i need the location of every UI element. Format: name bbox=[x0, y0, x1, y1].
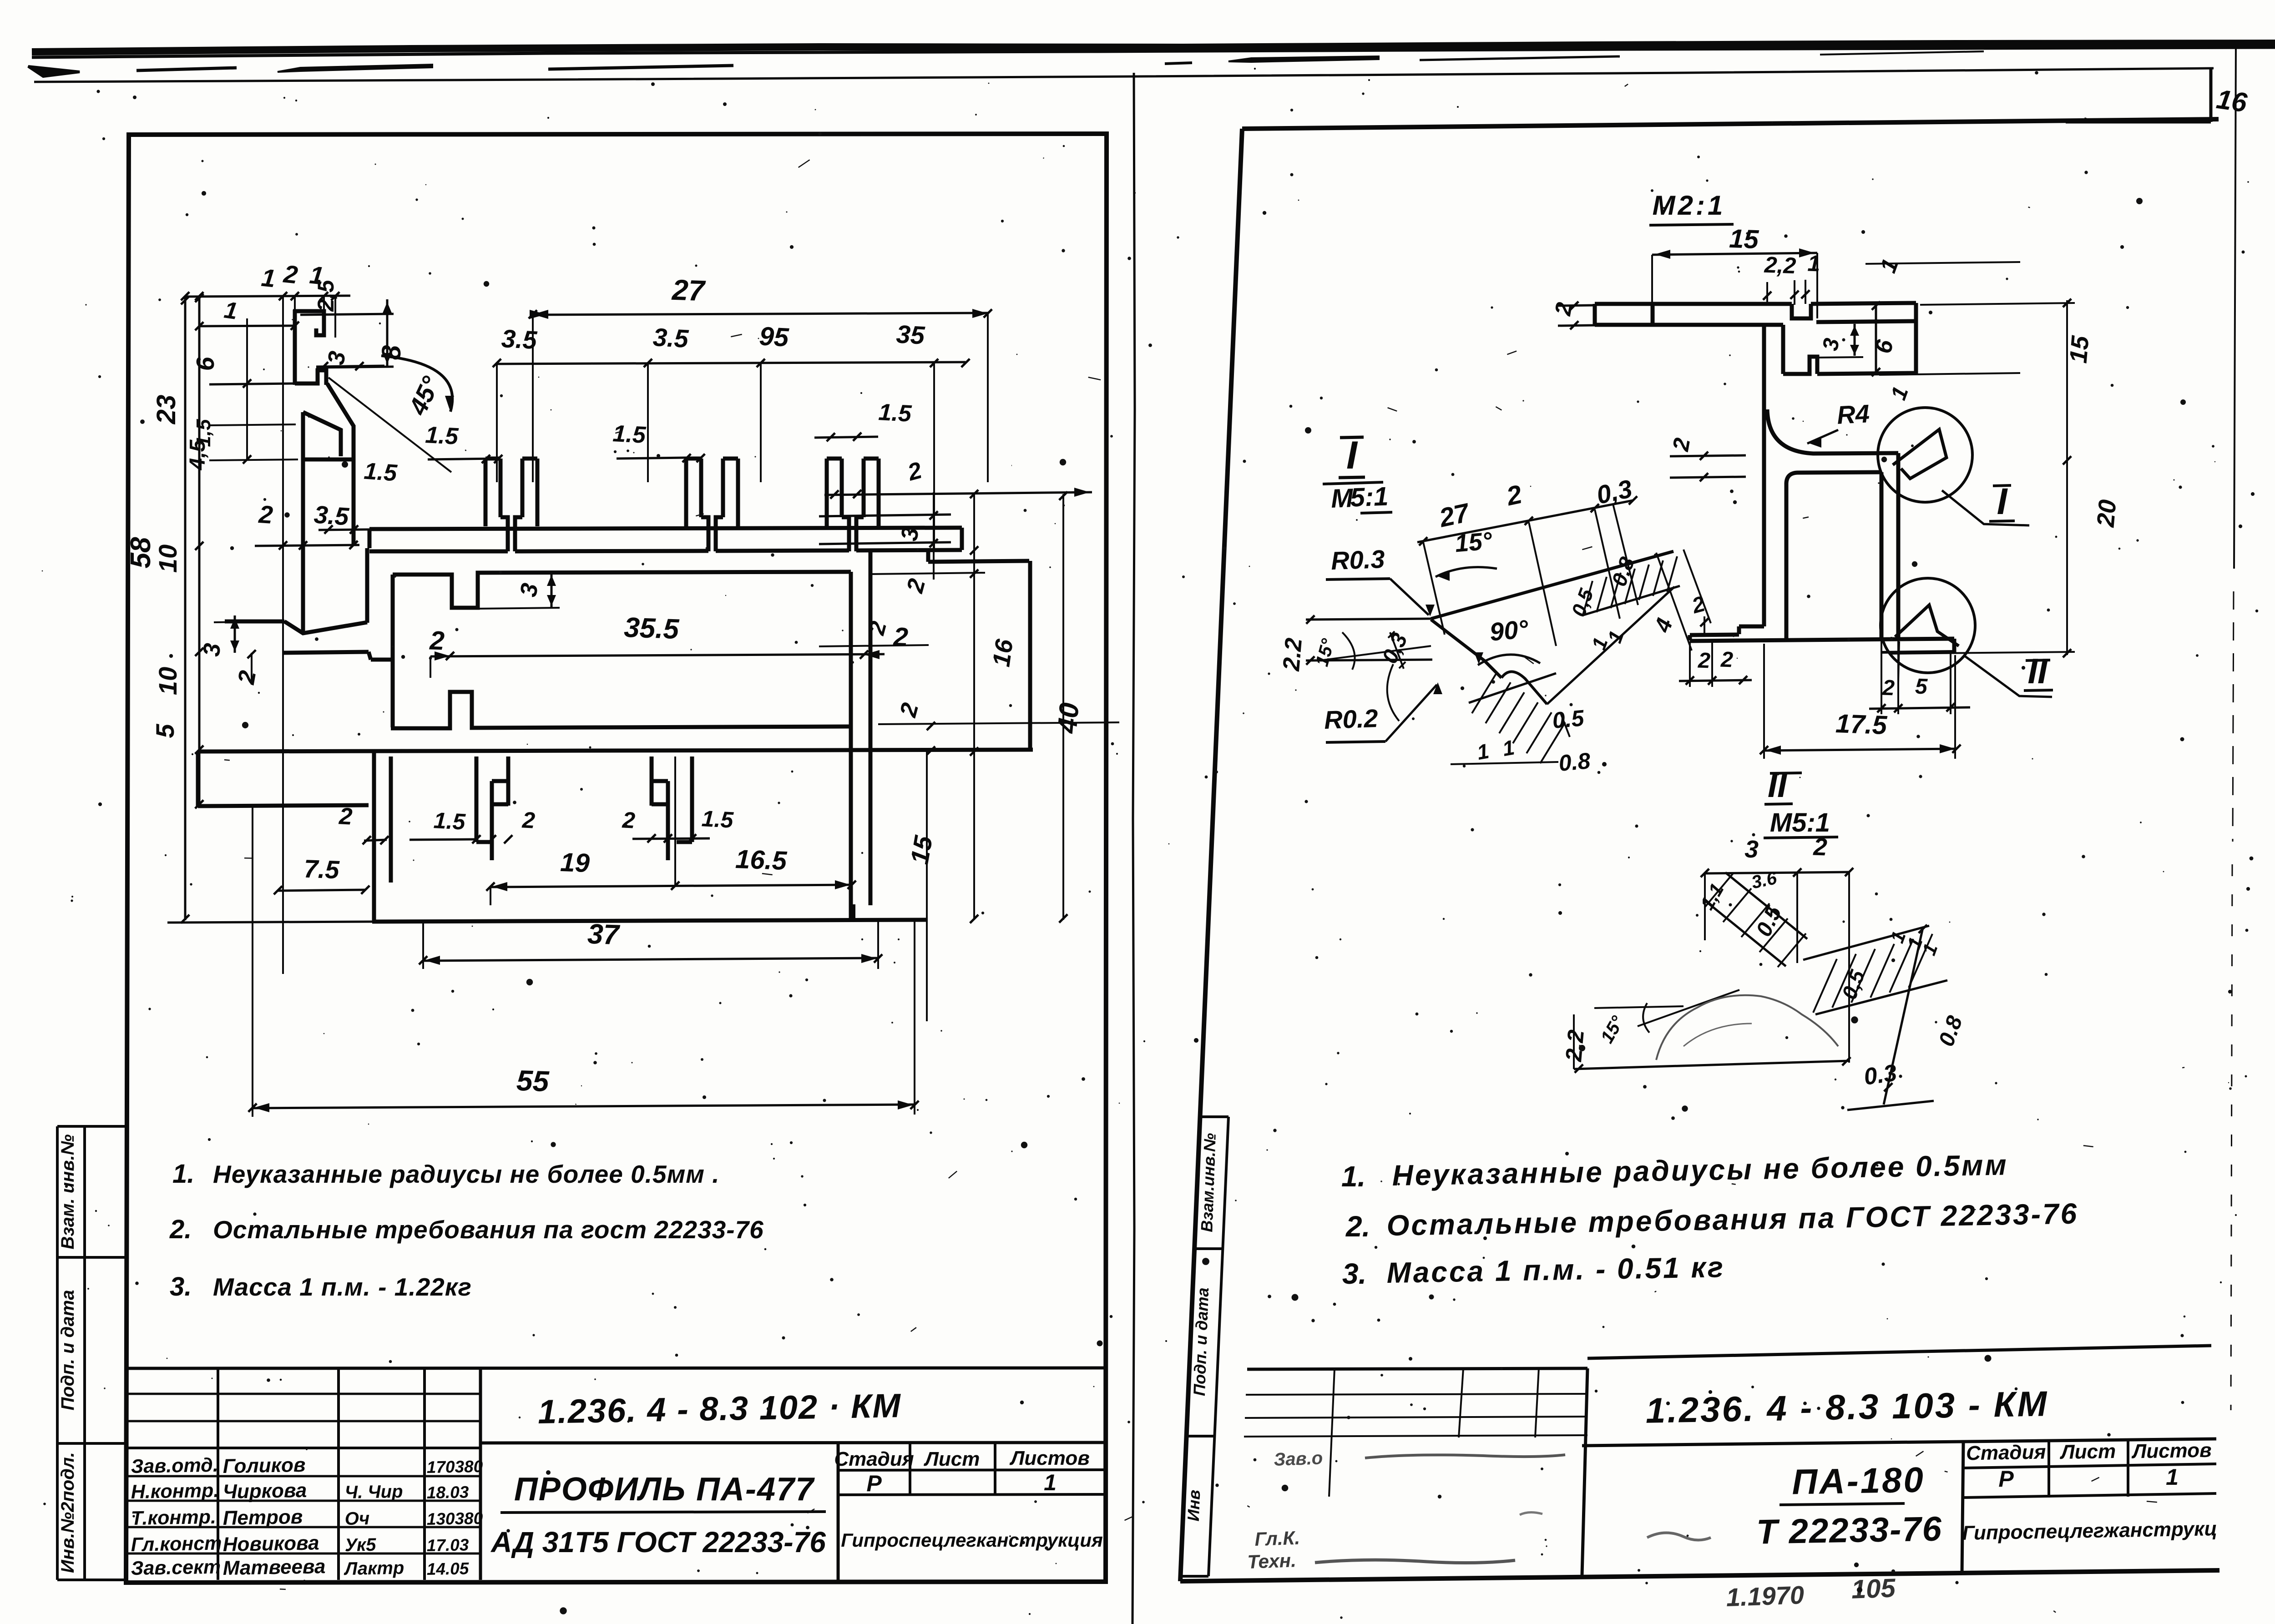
profile PA-477 left wing bbox=[225, 621, 367, 633]
svg-text:2: 2 bbox=[258, 500, 274, 529]
top scan bar bbox=[32, 43, 2275, 57]
svg-text:2: 2 bbox=[622, 807, 636, 833]
svg-text:27: 27 bbox=[1436, 498, 1473, 533]
svg-text:6: 6 bbox=[191, 357, 219, 371]
profile PA-477 top leg pair A bbox=[485, 459, 537, 551]
svg-text:Взам.инв.№: Взам.инв.№ bbox=[1197, 1133, 1219, 1232]
svg-text:1.5: 1.5 bbox=[701, 806, 735, 833]
svg-text:Инв.№2подл.: Инв.№2подл. bbox=[58, 1452, 78, 1573]
svg-text:2,5: 2,5 bbox=[313, 279, 339, 312]
right note 2 bbox=[1345, 1197, 2079, 1243]
svg-text:0.5: 0.5 bbox=[1752, 902, 1787, 940]
svg-text:17.5: 17.5 bbox=[1835, 709, 1888, 740]
svg-text:1: 1 bbox=[1875, 256, 1903, 276]
dim 15 top bbox=[1652, 224, 1817, 318]
svg-text:2: 2 bbox=[1550, 300, 1577, 318]
svg-text:2: 2 bbox=[905, 457, 925, 486]
svg-text:15°: 15° bbox=[1597, 1012, 1628, 1046]
svg-text:Ч. Чир: Ч. Чир bbox=[344, 1482, 403, 1503]
svg-text:35.5: 35.5 bbox=[623, 612, 680, 645]
top dims 3.5 3.5 95 35 bbox=[493, 319, 970, 548]
dim 55 bbox=[248, 806, 919, 1117]
detail I left dims 2.2 15 0,3 bbox=[1278, 615, 1431, 672]
svg-text:ПА-180: ПА-180 bbox=[1792, 1459, 1926, 1502]
svg-text:5: 5 bbox=[151, 724, 179, 738]
svg-text:2: 2 bbox=[1881, 676, 1895, 701]
left note 2 bbox=[169, 1215, 764, 1244]
profile PA-477 mid-band left edge bbox=[365, 548, 369, 623]
svg-text:1: 1 bbox=[1807, 251, 1821, 277]
svg-text:170380: 170380 bbox=[426, 1457, 483, 1477]
svg-text:15°: 15° bbox=[1312, 636, 1338, 669]
svg-text:130380: 130380 bbox=[426, 1509, 483, 1528]
dim 1,5 and 4,5 bbox=[186, 419, 298, 470]
svg-text:4: 4 bbox=[1649, 615, 1678, 636]
dim 1 left of channel bbox=[195, 297, 299, 330]
svg-text:Голиков: Голиков bbox=[222, 1454, 306, 1478]
svg-text:14.05: 14.05 bbox=[426, 1559, 470, 1579]
svg-text:Листов: Листов bbox=[1009, 1447, 1090, 1469]
svg-text:4,5: 4,5 bbox=[186, 439, 210, 470]
svg-text:35: 35 bbox=[895, 319, 925, 349]
dim 1.5 under chamfer bbox=[318, 458, 412, 534]
dims 2 5 bottom right bbox=[1869, 641, 1970, 714]
detail II top dims 3 2 bbox=[1701, 833, 1853, 1063]
svg-text:Гл.К.: Гл.К. bbox=[1254, 1527, 1300, 1550]
svg-text:1: 1 bbox=[1918, 941, 1941, 958]
svg-text:2: 2 bbox=[282, 260, 299, 289]
stray dashes under top bar bbox=[28, 51, 1984, 76]
dim 7.5 bbox=[274, 854, 369, 895]
label M2:1 bbox=[1649, 190, 1734, 225]
svg-text:Зав.отд.: Зав.отд. bbox=[131, 1454, 218, 1478]
svg-text:1.236. 4 - 8.3 103 - КМ: 1.236. 4 - 8.3 103 - КМ bbox=[1645, 1383, 2049, 1430]
svg-text:1.5: 1.5 bbox=[363, 458, 398, 487]
profile PA-477 mid band bottom bbox=[198, 750, 1033, 751]
svg-text:23: 23 bbox=[152, 395, 181, 425]
svg-text:15: 15 bbox=[1729, 224, 1759, 254]
detail II right band bbox=[1803, 925, 1967, 1110]
left side strip Vzam/Podp/Inv bbox=[57, 1126, 126, 1580]
profile PA-477 left wing bottom bbox=[198, 751, 369, 806]
svg-text:20: 20 bbox=[2092, 499, 2121, 529]
extension line right of lower box bbox=[926, 751, 928, 1021]
svg-text:Гипроспецлегканструкция: Гипроспецлегканструкция bbox=[841, 1529, 1103, 1551]
svg-text:2.: 2. bbox=[1345, 1210, 1370, 1243]
svg-text:16: 16 bbox=[987, 637, 1018, 669]
svg-text:3: 3 bbox=[515, 581, 543, 599]
svg-text:Гл.конст: Гл.конст bbox=[131, 1533, 222, 1556]
svg-text:Масса 1 п.м. - 0.51 кг: Масса 1 п.м. - 0.51 кг bbox=[1386, 1251, 1725, 1289]
svg-text:0,5: 0,5 bbox=[1567, 585, 1598, 620]
svg-text:3: 3 bbox=[198, 642, 226, 658]
svg-text:3.: 3. bbox=[1342, 1257, 1366, 1290]
dims 2.2 1 top bbox=[1763, 251, 2020, 306]
svg-text:2: 2 bbox=[521, 807, 536, 833]
right title doc number bbox=[1645, 1383, 2049, 1430]
svg-text:Взам. инв.№: Взам. инв.№ bbox=[58, 1134, 78, 1249]
svg-text:0.5: 0.5 bbox=[1551, 705, 1585, 733]
profile PA-477 lower box walls bbox=[374, 751, 391, 922]
svg-text:6: 6 bbox=[1870, 338, 1898, 356]
detail II ghost outline bbox=[1656, 995, 1838, 1060]
left title doc number bbox=[537, 1387, 901, 1431]
right note 1 bbox=[1341, 1148, 2008, 1193]
svg-text:2: 2 bbox=[1668, 436, 1695, 453]
svg-text:3: 3 bbox=[1744, 836, 1759, 863]
profile PA-477 inner box bbox=[391, 550, 870, 919]
svg-text:1.5: 1.5 bbox=[425, 422, 459, 450]
profile PA-180 foot and bottom bbox=[1690, 626, 1954, 652]
svg-text:ПРОФИЛЬ ПА-477: ПРОФИЛЬ ПА-477 bbox=[514, 1471, 815, 1508]
profile PA-477 top flange bbox=[369, 528, 962, 551]
profile PA-477 lower leg pair A bbox=[476, 757, 508, 860]
profile PA-477 channel bottom bar with hook bbox=[295, 370, 326, 385]
svg-text:1: 1 bbox=[1475, 739, 1491, 764]
right note 3 bbox=[1342, 1251, 1725, 1290]
right title stage cells bbox=[1962, 1439, 2217, 1544]
svg-text:3.5: 3.5 bbox=[313, 500, 350, 530]
right dim chain 15 20 bbox=[1891, 299, 2122, 657]
left note 3 bbox=[170, 1272, 472, 1301]
svg-text:Т 22233-76: Т 22233-76 bbox=[1756, 1509, 1942, 1551]
svg-text:1.: 1. bbox=[172, 1159, 194, 1189]
right title faint stamps bbox=[1247, 1448, 1565, 1573]
svg-text:55: 55 bbox=[516, 1064, 550, 1098]
dims 2 2 below foot bbox=[1679, 641, 1752, 687]
detail I R0.2 bbox=[1324, 664, 1442, 742]
detail I right hatch band bbox=[1567, 550, 1711, 653]
detail I 15deg bbox=[1436, 527, 1497, 581]
svg-text:10: 10 bbox=[153, 545, 182, 573]
svg-text:1: 1 bbox=[1886, 383, 1913, 403]
svg-text:15: 15 bbox=[905, 833, 938, 867]
detail II base lines bbox=[1561, 990, 1850, 1073]
svg-text:Неуказанные радиусы не боле: Неуказанные радиусы не более 0.5мм . bbox=[213, 1160, 720, 1188]
svg-text:Стадия: Стадия bbox=[1966, 1441, 2046, 1464]
45 degree note with arc bbox=[329, 356, 454, 472]
profile PA-180 step channel with notch bbox=[1783, 325, 1916, 374]
svg-text:1.236. 4 - 8.3 102 · КМ: 1.236. 4 - 8.3 102 · КМ bbox=[537, 1387, 901, 1431]
svg-text:II: II bbox=[2027, 651, 2048, 691]
svg-text:Лист: Лист bbox=[2059, 1440, 2116, 1463]
svg-text:2: 2 bbox=[1503, 479, 1524, 511]
svg-text:10: 10 bbox=[153, 667, 182, 695]
page edge dashed line bbox=[2231, 43, 2236, 1410]
detail II left band bbox=[1696, 868, 1807, 967]
dims 19 and 16.5 bbox=[486, 757, 856, 905]
svg-text:0.3: 0.3 bbox=[1862, 1059, 1899, 1090]
svg-text:1.1970: 1.1970 bbox=[1726, 1580, 1805, 1612]
svg-text:Чиркова: Чиркова bbox=[222, 1479, 307, 1503]
dim 2 mid right and 15 bbox=[878, 700, 1119, 755]
svg-text:3: 3 bbox=[1818, 336, 1844, 353]
dim 2 lower box left bbox=[338, 803, 389, 844]
svg-text:3.: 3. bbox=[170, 1272, 192, 1301]
detail II heading bbox=[1764, 766, 1838, 838]
svg-text:2.: 2. bbox=[169, 1215, 192, 1244]
svg-text:1.5: 1.5 bbox=[878, 399, 912, 427]
left vertical dim chain 58 bbox=[125, 296, 189, 923]
page number box 16 bbox=[2066, 68, 2249, 122]
dim 2.5 bbox=[313, 279, 339, 338]
svg-text:0.8: 0.8 bbox=[1557, 748, 1591, 776]
dim 3 left wing bbox=[198, 615, 287, 657]
right dim chain 2 3 2 bbox=[819, 490, 1018, 923]
dim 8 right of channel bbox=[300, 299, 406, 368]
svg-text:1: 1 bbox=[1501, 735, 1516, 761]
profile PA-477 bottom flange bbox=[167, 904, 927, 923]
label R4 with leader bbox=[1807, 399, 1870, 448]
svg-text:16: 16 bbox=[2214, 84, 2249, 118]
svg-text:Н.контр.: Н.контр. bbox=[131, 1480, 219, 1503]
svg-text:2.2: 2.2 bbox=[1561, 1029, 1589, 1063]
svg-text:Т.контр.: Т.контр. bbox=[131, 1506, 216, 1529]
profile PA-477 left opening mouth bbox=[283, 652, 394, 660]
dim 37 bbox=[419, 918, 882, 969]
page seam line bbox=[1132, 73, 1135, 1624]
detail I R0.3 bbox=[1326, 545, 1435, 616]
svg-text:5: 5 bbox=[1915, 675, 1928, 699]
dims 2 1.5 2 2 1.5 legs bottom bbox=[409, 806, 734, 843]
svg-text:Листов: Листов bbox=[2131, 1439, 2212, 1463]
svg-text:2: 2 bbox=[892, 622, 909, 652]
svg-text:2: 2 bbox=[1697, 649, 1711, 673]
svg-text:1.: 1. bbox=[1341, 1160, 1365, 1193]
right title block grid bbox=[1244, 1346, 2216, 1575]
profile PA-477 top-left channel web bbox=[293, 310, 297, 385]
svg-text:27: 27 bbox=[671, 273, 707, 308]
svg-text:Лактр: Лактр bbox=[343, 1558, 404, 1579]
svg-text:3.5: 3.5 bbox=[652, 323, 689, 353]
top dim line 1 2 1 bbox=[181, 260, 350, 974]
svg-text:58: 58 bbox=[125, 537, 157, 568]
labels 15 and 40 right bbox=[905, 492, 1084, 923]
dim 2 left cap bbox=[1550, 300, 1595, 329]
svg-text:17.03: 17.03 bbox=[426, 1535, 469, 1555]
svg-text:Подп. и дата: Подп. и дата bbox=[58, 1290, 78, 1411]
svg-text:Гипроспецлегжанструкц: Гипроспецлегжанструкц bbox=[1962, 1518, 2217, 1544]
svg-text:18.03: 18.03 bbox=[426, 1483, 469, 1502]
svg-text:Р: Р bbox=[1998, 1466, 2014, 1492]
svg-text:R0.2: R0.2 bbox=[1324, 704, 1378, 734]
svg-text:2: 2 bbox=[1720, 648, 1734, 672]
dim 2 left wing bbox=[233, 650, 261, 687]
profile PA-477 upper-left vertical edge bbox=[352, 426, 356, 546]
svg-text:Стадия: Стадия bbox=[834, 1448, 914, 1470]
svg-text:М2:1: М2:1 bbox=[1653, 190, 1726, 221]
profile PA-477 trapezoid gusset bbox=[302, 412, 354, 633]
svg-text:1: 1 bbox=[260, 263, 277, 293]
detail I wedge bbox=[1306, 551, 1674, 704]
profile PA-180 top flange bbox=[1595, 303, 1916, 374]
profile PA-477 top leg pair B bbox=[686, 459, 738, 551]
detail I bottom hatch band bbox=[1451, 672, 1592, 776]
svg-text:37: 37 bbox=[587, 918, 621, 951]
svg-text:40: 40 bbox=[1052, 701, 1085, 735]
dim 3 channel hook bbox=[316, 349, 384, 370]
thin horizontal rule under bar bbox=[34, 68, 2214, 82]
left title profile name bbox=[490, 1471, 826, 1558]
detail I 90deg bbox=[1474, 614, 1540, 665]
dim 35.5 and flanking 2s bbox=[429, 612, 909, 678]
right sheet frame bbox=[1180, 119, 2219, 1581]
svg-text:Техн.: Техн. bbox=[1247, 1549, 1297, 1573]
dims 1.5 over legs bbox=[425, 399, 1092, 580]
svg-text:5:1: 5:1 bbox=[1350, 482, 1389, 513]
svg-text:Петров: Петров bbox=[222, 1506, 303, 1529]
profile PA-477 lower leg pair B bbox=[652, 757, 692, 860]
svg-text:Остальные требования па ГОС: Остальные требования па ГОСТ 22233-76 bbox=[1386, 1197, 2079, 1242]
detail I slanted dim 27 2 0,3 bbox=[1417, 474, 1638, 646]
dim 27 top bbox=[529, 273, 992, 482]
svg-text:Остальные требования па гос: Остальные требования па гост 22233-76 bbox=[213, 1215, 764, 1244]
svg-text:15: 15 bbox=[2065, 334, 2094, 364]
detail I heading bbox=[1323, 434, 1392, 514]
svg-text:Инв: Инв bbox=[1184, 1489, 1203, 1522]
svg-text:2: 2 bbox=[1813, 833, 1828, 861]
svg-text:1.5: 1.5 bbox=[612, 420, 647, 449]
pencil marks below right sheet bbox=[1726, 1573, 1896, 1612]
svg-text:15°: 15° bbox=[1454, 527, 1493, 558]
profile PA-477 chamfer 45deg edge bbox=[327, 383, 354, 427]
detail circle II bbox=[1881, 578, 2053, 697]
left note 1 bbox=[172, 1159, 720, 1189]
svg-text:45°: 45° bbox=[403, 372, 445, 420]
svg-text:Масса 1 п.м. - 1.22кг: Масса 1 п.м. - 1.22кг bbox=[213, 1273, 472, 1301]
svg-text:Зав.о: Зав.о bbox=[1274, 1448, 1323, 1470]
dim 17.5 bbox=[1760, 641, 1961, 759]
svg-text:2: 2 bbox=[864, 619, 892, 638]
dim 6 channel bbox=[191, 318, 296, 464]
svg-text:R0.3: R0.3 bbox=[1330, 545, 1385, 575]
svg-text:7.5: 7.5 bbox=[303, 854, 340, 884]
svg-text:90°: 90° bbox=[1488, 614, 1529, 646]
svg-text:2: 2 bbox=[338, 803, 353, 830]
svg-text:Новикова: Новикова bbox=[222, 1532, 319, 1556]
detail circle I bbox=[1878, 408, 2029, 525]
profile PA-180 R4 fillet arm bbox=[1767, 409, 1898, 640]
left title block grid bbox=[126, 1368, 1106, 1580]
svg-text:АД 31Т5 ГОСТ 22233-76: АД 31Т5 ГОСТ 22233-76 bbox=[490, 1526, 826, 1558]
svg-text:19: 19 bbox=[560, 847, 590, 878]
svg-text:Р: Р bbox=[866, 1471, 882, 1496]
profile PA-180 web bbox=[1762, 325, 1766, 626]
dim 2 foot bbox=[1689, 592, 1709, 636]
dim 3.5 left and 2 bbox=[255, 500, 359, 550]
svg-text:16.5: 16.5 bbox=[735, 844, 788, 876]
svg-text:Ук5: Ук5 bbox=[344, 1535, 376, 1555]
svg-text:Неуказанные радиусы не боле: Неуказанные радиусы не более 0.5мм bbox=[1392, 1148, 2008, 1192]
left vertical dim chain 23 10 10 5 bbox=[151, 294, 203, 808]
svg-text:1: 1 bbox=[1044, 1470, 1057, 1495]
svg-text:R4: R4 bbox=[1836, 399, 1871, 429]
svg-text:1: 1 bbox=[222, 297, 239, 324]
svg-text:Оч: Оч bbox=[344, 1508, 369, 1529]
svg-text:2: 2 bbox=[895, 700, 924, 720]
left title stage cells bbox=[834, 1447, 1102, 1551]
profile PA-477 top leg pair C bbox=[827, 459, 879, 551]
svg-text:2: 2 bbox=[429, 625, 445, 656]
profile PA-477 channel top bar with hook bbox=[293, 311, 324, 335]
svg-text:0,3: 0,3 bbox=[1378, 630, 1412, 667]
svg-text:Лист: Лист bbox=[924, 1448, 980, 1470]
dim 2 web bbox=[1668, 436, 1746, 481]
svg-text:1: 1 bbox=[2166, 1464, 2179, 1490]
svg-text:2.2: 2.2 bbox=[1278, 637, 1307, 672]
svg-text:Подп. и дата: Подп. и дата bbox=[1190, 1287, 1212, 1397]
dim 3 step bbox=[1817, 324, 1863, 358]
left title personnel rows bbox=[131, 1454, 483, 1579]
right side strip bbox=[1180, 1117, 1228, 1576]
svg-text:1.5: 1.5 bbox=[433, 807, 467, 835]
dim 6 and 1 bbox=[1870, 302, 2020, 403]
svg-text:Матвеева: Матвеева bbox=[222, 1555, 325, 1579]
svg-text:Зав.сект: Зав.сект bbox=[131, 1556, 221, 1579]
svg-text:2: 2 bbox=[902, 576, 931, 596]
svg-text:I: I bbox=[1346, 434, 1358, 477]
svg-text:3.6: 3.6 bbox=[1750, 868, 1779, 893]
dim 3 inner notch bbox=[478, 573, 560, 609]
svg-text:95: 95 bbox=[758, 321, 790, 352]
svg-text:2,2: 2,2 bbox=[1764, 252, 1797, 278]
right title profile name bbox=[1647, 1459, 1943, 1551]
profile PA-477 right step and wing bbox=[928, 550, 1030, 751]
svg-text:0.8: 0.8 bbox=[1934, 1013, 1967, 1049]
left sheet frame bbox=[126, 134, 1107, 1583]
svg-text:2: 2 bbox=[233, 669, 261, 687]
